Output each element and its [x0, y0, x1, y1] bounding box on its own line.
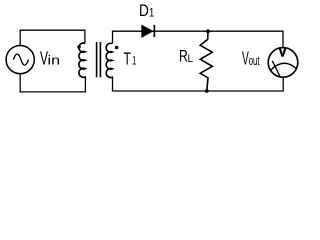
- svg-text:out: out: [249, 53, 260, 68]
- transformer core line 1: [96, 42, 98, 77]
- svg-text:D: D: [139, 2, 149, 20]
- resistor RL zigzag: [200, 31, 212, 91]
- diode D1 cathode bar: [154, 25, 156, 37]
- polarity dot secondary: [115, 46, 119, 50]
- voltmeter scale arc: [270, 63, 296, 71]
- polarity dot primary: [77, 45, 81, 49]
- svg-text:1: 1: [132, 54, 137, 68]
- diode D1 triangle: [142, 25, 153, 37]
- svg-text:in: in: [48, 53, 61, 68]
- wire primary bottom: [20, 74, 85, 92]
- voltmeter needle: [272, 61, 280, 78]
- voltmeter Vout circle: [268, 48, 298, 78]
- junction dot top: [206, 29, 210, 33]
- wire primary top: [20, 30, 85, 45]
- AC source Vin circle: [6, 46, 34, 74]
- AC source sine wave: [13, 54, 28, 65]
- transformer T1 primary coil: [79, 43, 86, 78]
- wire secondary bottom: [113, 77, 284, 91]
- svg-text:L: L: [188, 53, 194, 65]
- svg-text:1: 1: [149, 8, 154, 20]
- junction dot bottom: [205, 89, 209, 93]
- transformer core line 2: [99, 42, 101, 77]
- wire secondary top: [113, 31, 284, 47]
- svg-text:V: V: [279, 45, 287, 59]
- svg-text:T: T: [124, 49, 132, 69]
- transformer T1 secondary coil: [106, 43, 112, 78]
